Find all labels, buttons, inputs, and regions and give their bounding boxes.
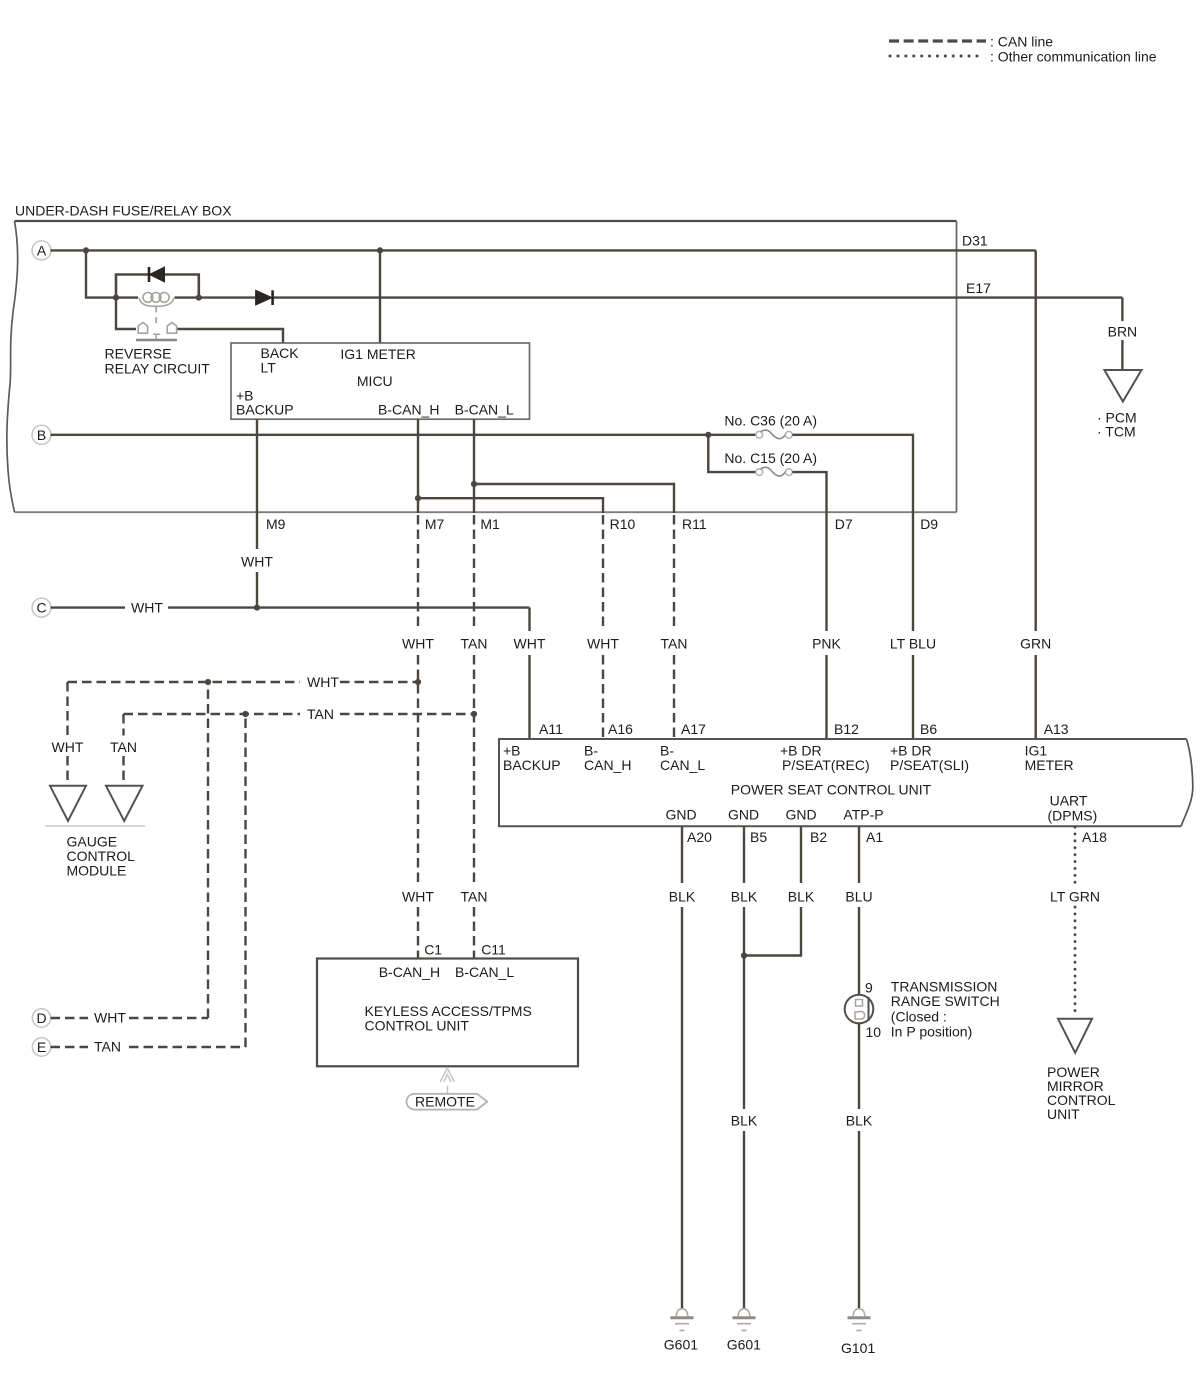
ground G101 <box>848 1309 871 1331</box>
svg-text:REMOTE: REMOTE <box>415 1094 475 1110</box>
relay coil <box>139 293 174 307</box>
svg-text:BACKUP: BACKUP <box>236 402 294 418</box>
svg-text:G101: G101 <box>841 1340 875 1356</box>
svg-text:M7: M7 <box>425 516 445 532</box>
svg-text:MICU: MICU <box>357 373 393 389</box>
wire node C row horizontal <box>51 606 530 608</box>
svg-text:P/SEAT(SLI): P/SEAT(SLI) <box>890 757 969 773</box>
svg-text:M1: M1 <box>480 516 500 532</box>
pin name UART (DPMS) <box>1048 793 1098 824</box>
svg-text:WHT: WHT <box>402 636 434 652</box>
junction dot C row M9 <box>254 605 260 611</box>
label REVERSE RELAY CIRCUIT <box>105 346 211 377</box>
svg-text:UNIT: UNIT <box>1047 1106 1080 1122</box>
svg-text:A20: A20 <box>687 829 712 845</box>
svg-text:R10: R10 <box>610 516 636 532</box>
wire B-CAN_L to R11 branch <box>474 484 674 513</box>
svg-text:B6: B6 <box>920 721 937 737</box>
wire PNK D7 to B12 <box>825 655 827 739</box>
svg-text:GRN: GRN <box>1020 636 1051 652</box>
svg-text:WHT: WHT <box>131 600 163 616</box>
svg-text:D: D <box>36 1010 46 1026</box>
REMOTE stadium label <box>407 1094 488 1110</box>
svg-text:PNK: PNK <box>812 636 841 652</box>
svg-text:REVERSE: REVERSE <box>105 346 172 362</box>
relay switch contact left <box>138 323 147 334</box>
svg-text:B: B <box>37 427 46 443</box>
under-dash fuse/relay box outline right edge <box>956 221 958 512</box>
svg-text:BLK: BLK <box>669 889 696 905</box>
svg-text:WHT: WHT <box>307 674 339 690</box>
svg-text:C: C <box>36 600 46 616</box>
under-dash fuse/relay box outline top edge <box>15 220 957 222</box>
svg-text:(DPMS): (DPMS) <box>1048 808 1098 824</box>
svg-text:· TCM: · TCM <box>1097 424 1136 440</box>
svg-text:MODULE: MODULE <box>67 863 127 879</box>
svg-text:LT BLU: LT BLU <box>890 636 936 652</box>
wire node B row horizontal <box>51 434 757 436</box>
wire BLK switch to G101 <box>858 1023 860 1308</box>
relay switch movable bar <box>136 339 177 342</box>
wire gauge WHT drop <box>66 682 68 785</box>
svg-text:GND: GND <box>665 807 696 823</box>
relay actuator dashed link <box>155 307 157 327</box>
wire node A row horizontal <box>51 249 1036 251</box>
connector arrow to power mirror control unit <box>1058 1019 1092 1053</box>
svg-text:UART: UART <box>1050 793 1088 809</box>
wire BLK B2 jog to B5 <box>744 826 801 955</box>
label KEYLESS ACCESS/TPMS CONTROL UNIT <box>365 1003 532 1034</box>
wire relay bypass diode branch <box>116 275 199 298</box>
junction dot A-relay branch <box>83 247 89 253</box>
svg-text:GND: GND <box>785 807 816 823</box>
svg-text:B-CAN_H: B-CAN_H <box>378 402 439 418</box>
ground G601 (A20) <box>671 1309 694 1331</box>
transmission range switch <box>845 995 874 1024</box>
svg-text:TAN: TAN <box>461 636 488 652</box>
svg-text:BLK: BLK <box>788 889 815 905</box>
svg-text:B2: B2 <box>810 829 827 845</box>
pin name IG1 METER (PSCU) <box>1025 743 1074 774</box>
svg-text:E17: E17 <box>966 280 991 296</box>
svg-text:ATP-P: ATP-P <box>843 807 883 823</box>
svg-text:A18: A18 <box>1082 829 1107 845</box>
wire B-CAN_L M1 vertical solid part <box>473 419 475 513</box>
junction dot B2-B5 <box>741 952 747 958</box>
wire node D dashed row <box>51 1017 209 1019</box>
pin name B-CAN_L (PSCU) <box>660 743 705 774</box>
svg-text:CONTROL UNIT: CONTROL UNIT <box>365 1018 470 1034</box>
pin name +B DR P/SEAT(SLI) <box>890 743 969 774</box>
wire BLK A20 to G601 <box>681 826 683 1308</box>
svg-text:A17: A17 <box>681 721 706 737</box>
svg-text:9: 9 <box>865 980 873 996</box>
junction dot WHT row node D branch <box>205 679 211 685</box>
wire LT BLU D9 to B6 <box>912 655 914 739</box>
label POWER MIRROR CONTROL UNIT <box>1047 1064 1116 1122</box>
wire LT GRN A18 dotted <box>1074 827 1077 1015</box>
svg-text:D7: D7 <box>835 516 853 532</box>
wire M7 dashed CAN vertical to C1 <box>417 515 419 959</box>
wire gauge TAN dashed row <box>124 713 475 715</box>
under-dash fuse/relay box outline bottom edge <box>15 511 957 513</box>
wire R11 dashed vertical to A17 <box>673 515 675 739</box>
svg-text:A11: A11 <box>539 721 563 737</box>
connector arrow gauge WHT <box>50 786 86 821</box>
wire node E dashed row <box>51 1046 246 1048</box>
wire M9 +B BACKUP vertical <box>256 419 258 607</box>
svg-text:WHT: WHT <box>52 739 84 755</box>
MICU box <box>231 343 530 419</box>
svg-text:TAN: TAN <box>661 636 688 652</box>
svg-text:C1: C1 <box>424 942 442 958</box>
power seat control unit wavy right edge <box>1181 739 1193 826</box>
ground G601 (B5) <box>733 1309 756 1331</box>
wire B branch down to fuse C15 <box>708 435 756 472</box>
fuse No. C36 <box>756 430 792 439</box>
pin name +B DR P/SEAT(REC) <box>780 743 870 774</box>
junction dot A-IG1 branch <box>377 247 383 253</box>
svg-text:G601: G601 <box>727 1337 761 1353</box>
wire node D vertical dashed <box>207 682 209 1018</box>
svg-text:B-CAN_L: B-CAN_L <box>455 402 514 418</box>
junction dot B-CAN_L to R11 <box>471 481 477 487</box>
svg-text:B-CAN_L: B-CAN_L <box>455 964 514 980</box>
wire BLK B5 to G601 <box>743 826 745 1308</box>
svg-text:No. C36 (20 A): No. C36 (20 A) <box>724 413 817 429</box>
node C <box>32 598 51 617</box>
svg-text:B-CAN_H: B-CAN_H <box>379 964 440 980</box>
wire GRN vertical D31 to A13 <box>1034 250 1036 739</box>
svg-text:BACKUP: BACKUP <box>503 757 561 773</box>
pin label BACK LT <box>261 345 300 376</box>
svg-text:(Closed :: (Closed : <box>891 1009 947 1025</box>
junction dot TAN row node E branch <box>242 711 248 717</box>
junction dot relay right <box>196 295 202 301</box>
junction dot B fuse branch <box>705 432 711 438</box>
connector arrow gauge TAN <box>106 786 143 821</box>
svg-text:WHT: WHT <box>94 1010 126 1026</box>
svg-text:A1: A1 <box>866 829 883 845</box>
svg-text:In P position): In P position) <box>891 1024 972 1040</box>
svg-text:WHT: WHT <box>241 554 273 570</box>
junction dot M7 with WHT gauge row <box>415 679 421 685</box>
svg-text:M9: M9 <box>266 516 286 532</box>
label TRANSMISSION RANGE SWITCH <box>891 979 1000 1040</box>
legend CAN line sample <box>889 34 1053 50</box>
under-dash fuse/relay box wavy left edge <box>7 221 18 512</box>
svg-text:No. C15 (20 A): No. C15 (20 A) <box>724 450 817 466</box>
keyless access/TPMS control unit box <box>317 959 578 1067</box>
junction dot M1 with TAN gauge row <box>471 711 477 717</box>
wire fuse C15 to D7 corner <box>792 472 826 631</box>
svg-text:TAN: TAN <box>94 1039 121 1055</box>
svg-text:RANGE SWITCH: RANGE SWITCH <box>891 993 1000 1009</box>
svg-text:TAN: TAN <box>307 706 334 722</box>
svg-text:CAN_H: CAN_H <box>584 757 631 773</box>
wire A drop to relay <box>86 250 138 297</box>
wire relay coil to switch <box>116 298 136 329</box>
node D <box>32 1009 50 1027</box>
wire fuse C36 to D9 corner <box>792 435 913 631</box>
node E <box>32 1038 50 1056</box>
wire R10 dashed vertical to A16 <box>602 515 604 739</box>
wire gauge WHT dashed row <box>68 681 419 683</box>
diode in series to E17 (pointing right) <box>199 290 273 305</box>
wire node E vertical dashed <box>244 714 246 1047</box>
svg-text:TAN: TAN <box>461 889 488 905</box>
node A <box>32 241 51 260</box>
wire gauge TAN drop <box>122 714 124 785</box>
svg-text:: Other communication line: : Other communication line <box>990 49 1157 65</box>
svg-text:METER: METER <box>1025 757 1074 773</box>
legend Other communication line sample <box>890 49 1157 65</box>
svg-text:R11: R11 <box>682 516 707 532</box>
wire IG1 METER drop from A row <box>379 250 381 343</box>
svg-text:C11: C11 <box>481 942 506 958</box>
svg-text:BLU: BLU <box>845 889 872 905</box>
svg-text:BLK: BLK <box>731 889 758 905</box>
relay switch actuator tick <box>153 334 160 339</box>
svg-text:IG1 METER: IG1 METER <box>340 346 415 362</box>
pin label +B BACKUP <box>236 388 294 418</box>
svg-text:UNDER-DASH FUSE/RELAY BOX: UNDER-DASH FUSE/RELAY BOX <box>15 203 232 219</box>
wire B-CAN_H M7 vertical solid part <box>417 419 419 513</box>
svg-text:LT GRN: LT GRN <box>1050 889 1100 905</box>
junction dot B-CAN_H to R10 <box>415 495 421 501</box>
svg-text:WHT: WHT <box>514 636 546 652</box>
junction dot relay left <box>113 295 119 301</box>
svg-text:BLK: BLK <box>846 1113 873 1129</box>
svg-text:10: 10 <box>866 1024 882 1040</box>
svg-text:G601: G601 <box>664 1337 698 1353</box>
svg-text:LT: LT <box>261 360 277 376</box>
svg-text:A: A <box>37 242 47 258</box>
wire BLU A1 to switch <box>858 826 860 995</box>
svg-text:GND: GND <box>728 807 759 823</box>
relay switch contact right <box>167 323 176 334</box>
wire B-CAN_H to R10 branch <box>418 498 603 513</box>
svg-text:A16: A16 <box>608 721 633 737</box>
remote signal arrow <box>440 1068 454 1093</box>
svg-text:: CAN line: : CAN line <box>990 34 1053 50</box>
power seat control unit box <box>499 739 1187 826</box>
wire WHT C row down to A11 <box>528 608 530 739</box>
diode D (bypass, pointing left) <box>149 267 165 282</box>
wire switch to BACK LT <box>178 329 284 343</box>
svg-text:D31: D31 <box>962 233 988 249</box>
svg-text:RELAY CIRCUIT: RELAY CIRCUIT <box>105 361 211 377</box>
svg-text:CAN_L: CAN_L <box>660 757 705 773</box>
pin name +B BACKUP (PSCU) <box>503 743 561 774</box>
svg-text:E: E <box>37 1039 46 1055</box>
svg-text:BRN: BRN <box>1108 324 1138 340</box>
svg-text:WHT: WHT <box>587 636 619 652</box>
fuse No. C15 <box>756 467 792 476</box>
svg-text:B12: B12 <box>834 721 859 737</box>
svg-text:BLK: BLK <box>731 1113 758 1129</box>
wire M1 dashed CAN vertical to C11 <box>473 515 475 959</box>
gauge module boundary line <box>45 825 145 827</box>
pin name B-CAN_H (PSCU) <box>584 743 631 774</box>
svg-text:P/SEAT(REC): P/SEAT(REC) <box>782 757 870 773</box>
wire E17 row to PCM/TCM <box>273 298 1123 370</box>
svg-text:WHT: WHT <box>402 889 434 905</box>
svg-text:TAN: TAN <box>110 739 137 755</box>
label GAUGE CONTROL MODULE <box>67 834 136 879</box>
wire coil to relay right node <box>175 296 199 298</box>
node B <box>32 425 51 444</box>
svg-text:POWER SEAT CONTROL UNIT: POWER SEAT CONTROL UNIT <box>731 782 932 798</box>
svg-text:A13: A13 <box>1044 721 1069 737</box>
connector arrow to PCM/TCM <box>1104 370 1141 402</box>
svg-text:D9: D9 <box>920 516 938 532</box>
svg-text:B5: B5 <box>750 829 767 845</box>
